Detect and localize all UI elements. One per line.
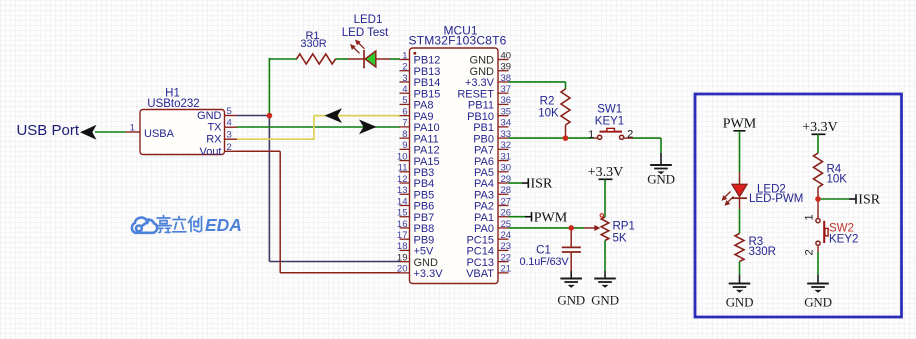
svg-text:5: 5 [227,106,232,117]
MCU1 pin 32 PA7 [474,140,511,156]
svg-text:KEY1: KEY1 [595,116,624,128]
wire MCU PB0 to SW1 [509,137,594,139]
ground SW1 [650,153,672,174]
svg-text:2: 2 [804,249,816,255]
net flag ISR (right box) [818,193,881,208]
svg-text:PA5: PA5 [474,167,494,179]
svg-text:GND: GND [591,293,619,308]
svg-text:PA3: PA3 [474,189,494,201]
MCU1 pin 23 PC14 [466,241,511,257]
wire USB Port to H1 pin 1 [95,131,126,133]
svg-text:13: 13 [397,185,408,196]
power +3.3V above RP1 [588,165,624,217]
wire GND net to MCU pin 19 [269,261,400,263]
svg-text:PB12: PB12 [414,55,441,67]
svg-text:10: 10 [397,151,408,162]
svg-text:PB4: PB4 [414,178,435,190]
svg-text:PB1: PB1 [473,122,494,134]
svg-text:11: 11 [398,163,408,174]
wire +3.3V MCU pin38 to R2 [509,81,566,83]
svg-text:KEY2: KEY2 [829,234,858,246]
svg-text:32: 32 [501,140,512,151]
svg-text:LED Test: LED Test [342,27,389,39]
svg-text:PA11: PA11 [414,133,439,145]
svg-text:ISR: ISR [531,177,553,192]
wire junction to R1 [269,58,297,60]
junction R4 / ISR / SW2 [815,196,821,202]
wire Vout to MCU pin 20 [280,272,400,274]
MCU1 pin 29 PA4 [474,174,511,190]
svg-text:R2: R2 [540,96,555,108]
MCU1 pin 5 PA8 [400,95,434,111]
svg-text:21: 21 [501,264,512,275]
svg-text:+3.3V: +3.3V [414,268,444,280]
LED2 emission arrows [722,192,734,206]
wire RX vertical jog [313,116,315,140]
svg-text:40: 40 [501,50,512,61]
MCU1 pin 31 PA6 [474,151,511,167]
svg-text:GND: GND [557,293,585,308]
svg-text:PA1: PA1 [474,212,494,224]
H1 pin 5 GND [197,106,237,122]
svg-text:PA2: PA2 [474,201,494,213]
wire GND net vertical up to R1 [268,58,270,116]
wire R3 to GND [739,262,741,276]
svg-text:RESET: RESET [457,88,494,100]
svg-text:PC13: PC13 [466,257,494,269]
svg-text:GND: GND [726,295,754,310]
svg-text:PB7: PB7 [414,212,435,224]
svg-text:1: 1 [588,129,594,141]
svg-text:PB5: PB5 [414,189,435,201]
svg-text:GND: GND [470,66,495,78]
svg-text:PA4: PA4 [474,178,494,190]
svg-text:GND: GND [414,257,439,269]
MCU1 pin 11 PB3 [398,163,435,179]
H1 pin 2 Vout [199,142,237,158]
H1 pin 4 TX [207,118,237,134]
svg-text:PA10: PA10 [414,122,440,134]
MCU1 pin 40 GND [470,50,512,66]
arrow on TX wire [359,120,377,135]
svg-text:+5V: +5V [414,246,435,258]
wire MCU PA0 to RP1 [509,227,585,229]
svg-text:GND: GND [804,295,832,310]
MCU1 pin 1 PB12 [400,50,441,66]
svg-text:37: 37 [501,84,512,95]
svg-text:GND: GND [470,55,495,67]
potentiometer RP1 5K [600,214,635,245]
svg-text:17: 17 [397,230,408,241]
wire LED1 to MCU pin 1 [390,58,400,60]
wire GND net H1 pin5 to junction [237,115,269,117]
MCU1 pin 16 PB8 [397,219,434,235]
svg-text:39: 39 [501,62,512,73]
MCU1 pin 36 PB11 [468,95,511,111]
svg-text:LED1: LED1 [354,14,383,26]
MCU1 pin 27 PA2 [474,196,511,212]
resistor R3 330R [735,234,776,262]
junction GND node [267,113,273,119]
H1 pin 1 [126,123,140,134]
svg-text:35: 35 [501,106,512,117]
svg-text:PB11: PB11 [468,100,494,112]
wire Vout H1 pin2 horizontal [237,150,280,152]
svg-text:5K: 5K [613,233,627,245]
svg-text:34: 34 [501,118,512,129]
svg-text:5: 5 [402,95,407,106]
wire R4 bottom lead [817,188,819,200]
svg-text:PA6: PA6 [474,156,494,168]
svg-text:1: 1 [402,50,407,61]
ground RP1 [594,271,616,288]
svg-text:20: 20 [397,264,408,275]
svg-text:12: 12 [397,174,408,185]
svg-text:PA7: PA7 [474,145,494,157]
svg-text:30: 30 [501,163,512,174]
MCU1 pin 13 PB5 [397,185,434,201]
svg-text:23: 23 [501,241,512,252]
switch SW2 KEY2 [816,199,828,252]
annotation box (sub-circuit frame) [695,94,902,317]
svg-text:PWM: PWM [723,117,757,132]
svg-text:16: 16 [397,219,408,230]
svg-text:GND: GND [197,110,222,122]
MCU1 pin 30 PA5 [474,163,511,179]
svg-text:PB8: PB8 [414,223,435,235]
RP1 wiper arrow [584,225,600,231]
svg-text:PB6: PB6 [414,201,435,213]
MCU1 pin 25 PA0 [474,219,511,235]
LED LED1 [348,50,390,68]
svg-text:7: 7 [402,118,407,129]
MCU1 pin 28 PA3 [474,185,511,201]
wire RX to MCU PA9 [314,115,400,117]
svg-text:3: 3 [402,73,407,84]
svg-text:9: 9 [402,140,407,151]
svg-text:USB Port: USB Port [16,122,79,139]
H1 pin 3 RX [206,130,237,146]
MCU1 pin 4 PB15 [400,84,441,100]
svg-text:18: 18 [397,241,408,252]
switch SW1 KEY1 [593,128,633,139]
svg-text:RX: RX [206,134,222,146]
MCU1 pin 37 RESET [457,84,511,100]
MCU1 pin 17 PB9 [397,230,434,246]
svg-text:PB13: PB13 [414,66,441,78]
arrow on RX wire [325,108,343,123]
wire SW1 to GND [633,137,661,139]
svg-text:EDA: EDA [205,215,242,235]
MCU1 pin 33 PB0 [473,129,511,145]
svg-text:SW1: SW1 [597,104,622,116]
svg-text:PA8: PA8 [414,100,434,112]
MCU1 pin 6 PA9 [400,106,434,122]
svg-text:330R: 330R [300,38,326,50]
IC MCU1 STM32F103C8T6 [410,48,499,284]
resistor R1 [297,30,336,64]
resistor R4 10K [814,153,848,188]
svg-text:PA0: PA0 [474,223,494,235]
svg-text:PC15: PC15 [466,234,494,246]
junction R2 / PB0 [563,135,569,141]
wire +3.3V down to R2 top [565,82,567,89]
svg-text:PB14: PB14 [414,77,441,89]
MCU1 pin 38 +3.3V [465,73,511,89]
svg-text:24: 24 [501,230,512,241]
ground R3 [729,275,751,293]
MCU1 pin 35 PB10 [467,106,511,122]
svg-text:2: 2 [402,62,407,73]
svg-text:PA15: PA15 [414,156,440,168]
svg-text:2: 2 [627,128,633,140]
svg-text:22: 22 [501,252,512,263]
LED1 emission arrows [350,40,365,54]
svg-text:PA12: PA12 [414,145,440,157]
wire RP1 to GND [604,241,606,272]
svg-text:0.1uF/63V: 0.1uF/63V [520,256,570,268]
svg-text:PB9: PB9 [414,234,435,246]
svg-text:USBto232: USBto232 [147,98,199,110]
MCU1 pin 18 +5V [397,241,434,257]
wire LED2 to R3 [739,209,741,234]
svg-text:15: 15 [397,208,408,219]
svg-text:STM32F103C8T6: STM32F103C8T6 [409,34,507,48]
MCU1 pin 7 PA10 [400,118,440,134]
MCU1 pin 8 PA11 [400,129,439,145]
svg-text:8: 8 [402,129,407,140]
svg-text:VBAT: VBAT [466,268,494,280]
svg-text:1: 1 [130,123,135,134]
net flag PWM on PA1 [509,210,568,225]
MCU1 pin 19 GND [397,252,438,268]
capacitor C1 0.1uF/63V [520,228,581,271]
logo text JiaLiChuang EDA [156,215,202,232]
MCU1 pin1 marker dot [413,52,416,55]
MCU1 pin 14 PB6 [397,196,434,212]
svg-text:C1: C1 [536,245,551,257]
wire RX H1 pin3 horizontal [237,138,314,140]
svg-text:GND: GND [647,172,675,187]
svg-text:Vout: Vout [199,146,221,158]
MCU1 pin 26 PA1 [474,208,511,224]
svg-text:+3.3V: +3.3V [802,120,838,135]
svg-text:LED-PWM: LED-PWM [749,193,803,205]
MCU1 pin 12 PB4 [397,174,434,190]
svg-text:4: 4 [227,118,232,129]
MCU1 pin 21 VBAT [466,264,511,280]
power +3.3V above R4 [802,120,838,153]
MCU1 pin 22 PC13 [466,252,511,268]
svg-text:4: 4 [402,84,407,95]
connector H1 USBto232 [140,110,225,155]
MCU1 pin 24 PC15 [466,230,511,246]
svg-text:PWM: PWM [534,210,568,225]
net flag PWM (vertical) [723,117,757,173]
svg-text:RP1: RP1 [613,221,635,233]
wire TX H1 pin4 to MCU PA10 [237,126,400,128]
wire Vout vertical [279,151,281,272]
MCU1 pin 9 PA12 [400,140,440,156]
svg-text:TX: TX [207,122,222,134]
wire GND net vertical down [268,116,270,262]
svg-text:+3.3V: +3.3V [465,77,495,89]
junction PA0 / C1 [568,225,574,231]
arrow USB direction annotation [80,125,97,140]
svg-text:330R: 330R [749,246,777,258]
MCU1 pin 2 PB13 [400,62,441,78]
svg-text:PA9: PA9 [414,111,434,123]
svg-text:USBA: USBA [144,128,175,140]
wire SW2 to GND [817,252,819,275]
ground C1 [560,271,582,288]
resistor R2 [538,89,570,125]
svg-text:PB0: PB0 [473,133,494,145]
MCU1 pin 39 GND [470,62,512,78]
svg-text:28: 28 [501,185,512,196]
svg-text:27: 27 [501,196,512,207]
svg-text:10K: 10K [538,108,559,120]
svg-text:19: 19 [397,252,408,263]
svg-text:10K: 10K [827,174,848,186]
svg-text:1: 1 [804,214,816,220]
MCU1 pin 3 PB14 [400,73,441,89]
svg-text:36: 36 [501,95,512,106]
wire R1 to LED1 [336,58,349,60]
svg-text:31: 31 [501,151,512,162]
svg-text:PB3: PB3 [414,167,435,179]
MCU1 pin 34 PB1 [473,118,511,134]
LED LED2 [732,172,747,209]
MCU1 pin 10 PA15 [397,151,440,167]
svg-text:6: 6 [402,106,407,117]
svg-text:PB15: PB15 [414,88,441,100]
svg-text:+3.3V: +3.3V [588,165,624,180]
MCU1 pin 15 PB7 [397,208,434,224]
svg-text:2: 2 [227,142,232,153]
ground SW2 [807,275,829,293]
MCU1 pin 20 +3.3V [397,264,443,280]
svg-text:3: 3 [227,130,232,141]
net flag ISR on PA4 [509,177,553,192]
svg-text:PC14: PC14 [466,246,494,258]
svg-text:PB10: PB10 [467,111,494,123]
svg-text:14: 14 [397,196,408,207]
logo JLC EDA cloud [132,218,157,233]
svg-text:ISR: ISR [858,193,880,208]
wire R2 bottom lead [565,125,567,138]
